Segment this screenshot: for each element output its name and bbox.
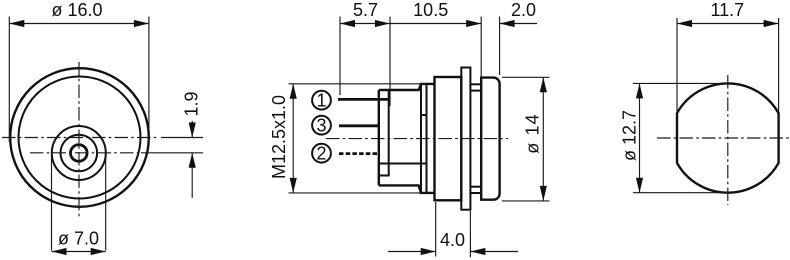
svg-text:M12.5x1.0: M12.5x1.0 — [269, 95, 289, 179]
dimension ø12.7 extension line bottom — [633, 192, 727, 194]
dimension ø14 extension line bottom — [502, 200, 550, 202]
dimension 4.0 line right outside arrow — [470, 248, 518, 255]
dimension ø12.7 line with arrows — [636, 83, 643, 192]
thread M12.5 extension line top — [289, 83, 424, 85]
svg-text:5.7: 5.7 — [353, 0, 378, 20]
dimension ø12.7 extension line top — [633, 82, 727, 84]
front view: actuator horizontal centerline — [30, 152, 141, 154]
dimension ø14 extension line top — [502, 76, 550, 78]
dimension 2.0 text — [511, 0, 536, 20]
terminal label circle 2 — [312, 144, 331, 164]
front view: actuator outer circle ø7 — [52, 126, 106, 180]
dimension 1.9 extension line upper — [161, 137, 203, 139]
svg-text:2.0: 2.0 — [511, 0, 536, 20]
front view: bezel ring — [19, 77, 141, 199]
svg-text:3: 3 — [316, 116, 326, 136]
side view: horizontal centerline — [326, 138, 508, 140]
front view: actuator middle circle — [61, 135, 98, 172]
dimension 4.0 extension line right — [469, 211, 471, 257]
svg-text:ø 16.0: ø 16.0 — [51, 0, 102, 20]
dimension ø7.0 extension line left — [51, 156, 53, 251]
dimension 10.5 text — [413, 0, 448, 20]
front view: body outer circle ø16 — [10, 68, 149, 207]
svg-text:11.7: 11.7 — [710, 0, 744, 20]
svg-text:4.0: 4.0 — [440, 230, 465, 250]
side view: thread relief groove left line — [420, 84, 422, 193]
svg-text:1: 1 — [316, 91, 326, 111]
dimension ø14 line with arrows — [540, 77, 547, 201]
dimension 11.7 extension line left — [676, 18, 678, 112]
front view: actuator center hole — [71, 145, 88, 162]
side view: hex nut — [435, 77, 462, 200]
front view: body horizontal centerline — [2, 137, 158, 139]
svg-text:1.9: 1.9 — [182, 91, 202, 116]
dimension 11.7 extension line right — [778, 18, 780, 112]
dimension 2.0 line with outside arrow — [500, 20, 537, 27]
side view: housing step line lower — [379, 175, 390, 177]
svg-text:ø 7.0: ø 7.0 — [58, 229, 99, 249]
dimension 11.7 line with arrows — [677, 20, 779, 27]
dimension ø14 text — [523, 113, 543, 153]
side view: button cap — [481, 78, 499, 200]
terminal pin 2 (hidden, dashed) — [339, 152, 379, 155]
side view: lock washer — [461, 68, 470, 210]
dimension ø7.0 line with arrows — [52, 248, 106, 255]
dimension ø16.0 text — [51, 0, 102, 20]
dimension ø7.0 extension line right — [105, 156, 107, 251]
side view: thread relief groove right line — [426, 84, 428, 193]
cap front view vertical centerline — [727, 75, 729, 205]
dimension ø16.0 extension line right — [148, 17, 150, 145]
svg-text:ø 14: ø 14 — [523, 113, 543, 153]
svg-text:2: 2 — [316, 144, 326, 164]
dimension 4.0 text — [440, 230, 465, 250]
dimension 5.7 line with arrows — [340, 20, 390, 27]
dimension M12.5x1.0 text — [269, 95, 289, 179]
side view: thread relief bridge line — [421, 114, 427, 116]
svg-text:ø 12.7: ø 12.7 — [620, 110, 640, 161]
thread M12.5 extension line bottom — [289, 192, 424, 194]
dimension 4.0 line left outside arrow — [388, 248, 436, 255]
side view: rear housing outline — [379, 84, 435, 193]
dimension 11.7 text — [710, 0, 744, 20]
cap front view outline — [677, 83, 779, 192]
side view: rear cover seam — [388, 90, 390, 176]
dimension ø16.0 extension line left — [8, 17, 10, 143]
terminal label circle 1 — [312, 91, 331, 111]
dimension 1.9 text — [182, 91, 202, 116]
dimension 1.9 extension line lower — [141, 152, 203, 154]
dimension 1.9 line lower with arrow — [189, 153, 196, 198]
svg-text:10.5: 10.5 — [413, 0, 448, 20]
dimension ø7.0 text — [58, 229, 99, 249]
side view: housing step line upper — [379, 163, 427, 165]
dimension 2.0 extension line right — [499, 17, 501, 76]
side view: neck bottom outer line — [470, 192, 481, 194]
cap front view horizontal centerline — [657, 137, 790, 139]
terminal label circle 3 — [312, 116, 331, 136]
dimension ø16.0 line with arrows — [9, 20, 149, 27]
dimension M12.5x1.0 line with arrows — [290, 84, 297, 193]
dimension 4.0 extension line left — [435, 202, 437, 257]
terminal pin 1 — [338, 98, 389, 101]
dimension ø12.7 text — [620, 110, 640, 161]
dimension 5.7 extension line left — [339, 17, 341, 96]
dimension 10.5 line with arrows — [390, 20, 481, 27]
dimension 2.0 extension line left — [480, 17, 482, 78]
terminal pin 3 — [339, 124, 379, 127]
dimension 5.7/10.5 shared extension line — [389, 17, 391, 107]
side view: neck top inner line — [470, 90, 481, 92]
dimension 5.7 text — [353, 0, 378, 20]
dimension 1.9 line upper with arrow — [189, 121, 196, 138]
side view: neck top outer line — [470, 83, 481, 85]
front view: vertical centerline — [78, 62, 80, 217]
side view: neck bottom inner line — [470, 186, 481, 188]
